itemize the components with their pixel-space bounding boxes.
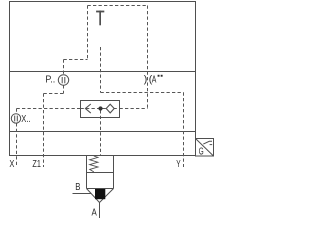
wire pilot to cartridge valve	[100, 110, 102, 155]
wire P branch horizontal	[64, 59, 88, 61]
svg-text:A: A	[92, 207, 97, 219]
wire T right vertical to node A	[147, 6, 149, 109]
housing divider lower	[10, 131, 196, 133]
svg-text:A: A	[152, 74, 157, 86]
valve seat V	[87, 189, 100, 203]
node junction dot	[98, 106, 102, 110]
poppet black rect	[95, 189, 105, 199]
wire tank vertical upper	[100, 47, 102, 93]
housing outline	[10, 2, 196, 156]
svg-text:G: G	[199, 146, 204, 158]
wire Y horizontal	[101, 92, 184, 94]
wire Y vertical	[183, 93, 185, 168]
wire T left vertical	[87, 6, 89, 60]
svg-text:X: X	[9, 158, 14, 170]
diamond orifice	[106, 104, 114, 113]
orifice block	[81, 101, 120, 118]
svg-text:P..: P..	[45, 73, 55, 85]
wire X below measuring point	[16, 123, 18, 167]
measuring point P circle	[58, 75, 68, 85]
housing divider upper	[10, 71, 196, 73]
svg-text:Y: Y	[176, 158, 180, 170]
wire Z1 vertical	[43, 94, 45, 168]
measuring point X circle	[11, 114, 20, 123]
port A line	[99, 203, 101, 219]
svg-text:B: B	[75, 181, 80, 193]
chevron arrow	[85, 104, 90, 113]
wire X to orifice horizontal	[17, 108, 81, 110]
cartridge valve body	[87, 156, 114, 203]
wire T top horizontal	[88, 5, 148, 7]
wire P to Z1 horizontal	[44, 93, 64, 95]
svg-text:): )	[144, 73, 148, 85]
wire through orifice block	[81, 108, 120, 110]
wire orifice to node A	[120, 108, 148, 110]
svg-text:X..: X..	[21, 113, 30, 125]
wire P below measuring point	[63, 85, 65, 93]
port B line	[73, 193, 92, 195]
wire X above measuring point	[16, 109, 18, 114]
nameplate G box	[196, 139, 214, 157]
svg-text:Z1: Z1	[32, 158, 41, 170]
label T (port)	[96, 11, 104, 26]
wire P drop to measuring point	[63, 60, 65, 75]
spring	[90, 156, 98, 172]
